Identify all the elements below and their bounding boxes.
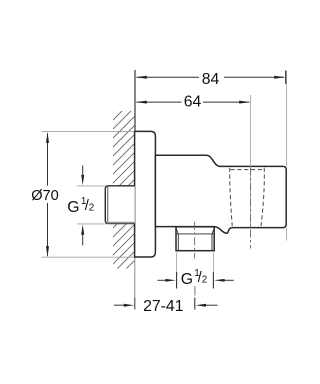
svg-text:27-41: 27-41 — [143, 298, 184, 315]
dimension left G1/2 — [81, 166, 84, 246]
dimension 84 — [136, 71, 286, 84]
hidden cone seat (dashed) — [231, 169, 265, 171]
body outline — [155, 155, 286, 233]
dimension dia 70 — [46, 132, 49, 257]
svg-text:G: G — [181, 271, 193, 288]
outlet thread (bottom G1/2 stub) — [176, 227, 214, 251]
extension line holder centre (for 64) — [250, 95, 252, 227]
dimension 27-41 — [114, 298, 218, 310]
svg-text:64: 64 — [184, 94, 202, 111]
svg-text:84: 84 — [202, 71, 220, 88]
centerline outlet (dash-dot) — [194, 222, 196, 259]
extension line flange bottom (for dia 70) — [42, 256, 136, 258]
extension line pipe top (for left G1/2) — [77, 185, 106, 187]
tick 27-41 left — [134, 298, 136, 310]
extension line flange top (for dia 70) — [42, 130, 136, 132]
wall face extension below flange — [134, 258, 136, 298]
inlet pipe (left G1/2 stub) — [105, 186, 135, 224]
svg-text:2: 2 — [89, 203, 95, 214]
hidden cone right (dashed) — [261, 168, 264, 228]
wall hatching — [95, 84, 140, 309]
escutcheon flange — [135, 131, 156, 257]
svg-text:2: 2 — [202, 275, 208, 286]
centerline holder (dash-dot) — [250, 168, 252, 249]
svg-text:G: G — [67, 199, 79, 216]
dimension bottom G1/2 — [158, 272, 234, 289]
extension line holder right edge (for 84) — [286, 71, 288, 167]
extension line outlet right (for bottom G1/2) — [213, 253, 215, 273]
extension line pipe bottom (for left G1/2) — [77, 223, 107, 225]
dimension 64 — [136, 101, 250, 104]
svg-text:Ø70: Ø70 — [31, 188, 59, 204]
extension line outlet left (for bottom G1/2) — [176, 253, 178, 273]
hidden cone left (dashed) — [230, 168, 233, 229]
wall face line — [134, 70, 136, 258]
